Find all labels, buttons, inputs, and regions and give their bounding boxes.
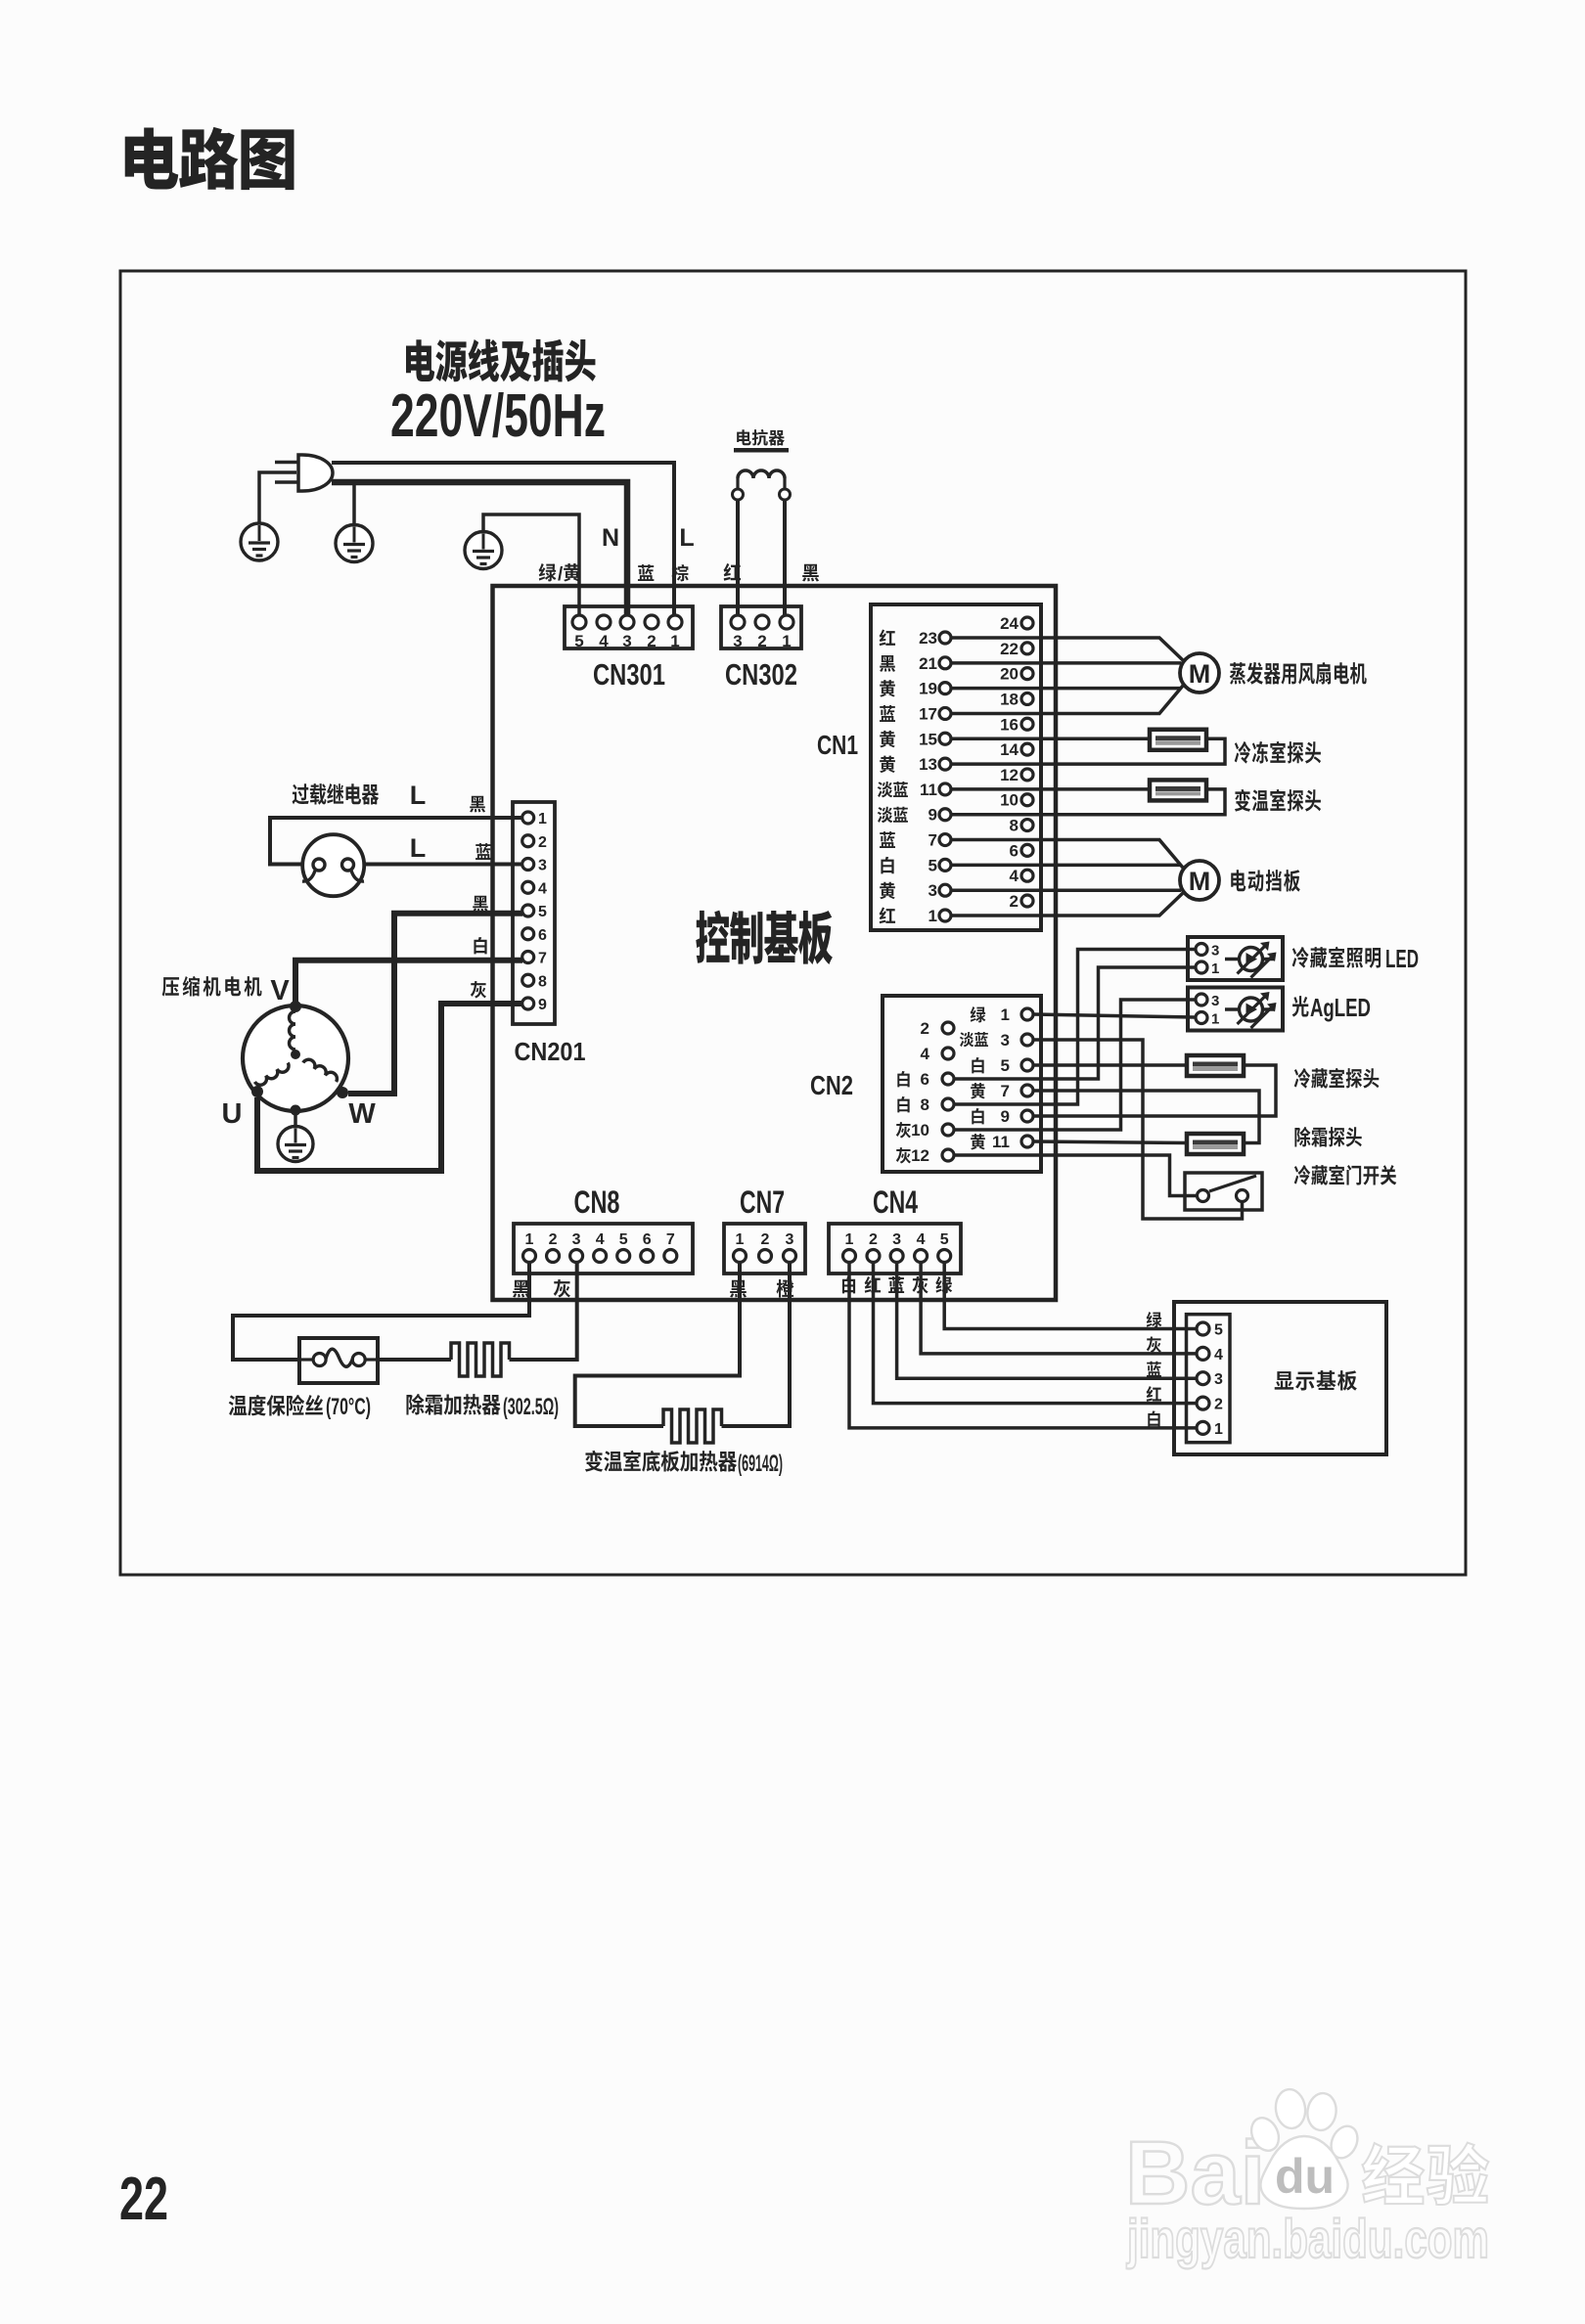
svg-text:22: 22 [1000, 640, 1019, 658]
svg-text:6: 6 [538, 927, 547, 944]
wire door switch (left) to CN2 pin12 [954, 1155, 1198, 1196]
CN1 pin 21 (黑) [880, 655, 895, 672]
watermark Baidu 经验 logo [1125, 2087, 1363, 2223]
svg-text:21: 21 [919, 654, 937, 673]
wire defrost heater to CN8 pin3 [510, 1262, 577, 1360]
connector CN302 [721, 606, 801, 648]
svg-text:3: 3 [1214, 1371, 1223, 1388]
wire CN1 pin5 to damper motor [951, 864, 1181, 868]
relay OLR 过载继电器 [302, 834, 364, 896]
connector CN1 [871, 604, 1041, 930]
svg-text:1: 1 [1211, 1011, 1219, 1028]
CN2 pin 11 (黄) [971, 1134, 985, 1149]
reactor L301 [738, 470, 785, 478]
wire CN1 pin11 to vari-temp sensor [951, 787, 1150, 791]
svg-text:8: 8 [1010, 817, 1019, 835]
svg-text:L: L [410, 781, 427, 810]
CN1 pin 5 (白) [881, 857, 893, 873]
wire CN201 pin1 to relay [270, 818, 522, 865]
svg-text:4: 4 [599, 632, 609, 650]
LED D1 冷藏室照明LED [1188, 937, 1283, 980]
wire reactor to CN302 pin3 红 [736, 500, 740, 616]
svg-text:9: 9 [538, 997, 547, 1013]
wire CN201 pin7 to compressor V [295, 961, 522, 1004]
svg-text:2: 2 [921, 1019, 929, 1038]
svg-text:LED: LED [1385, 944, 1419, 973]
svg-text:9: 9 [1001, 1107, 1010, 1126]
svg-text:7: 7 [928, 831, 937, 850]
svg-text:M: M [1189, 659, 1211, 689]
CN2 pin 1 (绿) [971, 1006, 986, 1022]
svg-text:V: V [270, 975, 290, 1006]
label 变温室探头 [1235, 789, 1321, 812]
net label 灰 (pin9) [471, 981, 486, 999]
connector CN201 [513, 802, 555, 1024]
svg-text:3: 3 [1211, 993, 1219, 1009]
svg-text:5: 5 [619, 1231, 628, 1248]
wire CN1 pin1 to damper motor [951, 893, 1183, 916]
label 除霜探头 [1294, 1127, 1361, 1147]
label 电源线及插头 220V/50Hz [406, 339, 596, 382]
wire CN1 pin21 to fan motor [951, 661, 1181, 665]
wire CN201 pin9 to compressor U [257, 1004, 522, 1171]
CN1 pin 3 (黄) [880, 882, 895, 899]
svg-text:CN301: CN301 [593, 657, 665, 692]
wire CN2 pin1 to LED D2 pin1 [1033, 1014, 1195, 1017]
wire CN201 pin5 to compressor W [348, 914, 522, 1094]
CN2 pin 5 (白) [972, 1057, 983, 1073]
svg-text:1: 1 [845, 1231, 854, 1248]
svg-text:jingyan.baidu.com: jingyan.baidu.com [1126, 2208, 1489, 2269]
CN2 pin 12 (灰) [896, 1147, 911, 1163]
svg-text:CN7: CN7 [740, 1184, 785, 1220]
svg-text:(70°C): (70°C) [326, 1394, 371, 1420]
svg-text:1: 1 [782, 632, 791, 650]
svg-text:24: 24 [1000, 614, 1019, 633]
svg-text:CN302: CN302 [725, 657, 797, 692]
wire sensor RT3 return to CN2 pin9 [1033, 1065, 1276, 1116]
wire fuse to defrost heater [378, 1358, 451, 1362]
wire LED D2 pin3 to CN2 pin10 [954, 1000, 1195, 1130]
svg-text:17: 17 [919, 704, 937, 723]
svg-text:/: / [558, 564, 564, 585]
net label 白 (pin7) [474, 937, 486, 954]
wire CN1 pin15 to freezer sensor [951, 737, 1150, 741]
sensor RT4 除霜探头 [1187, 1134, 1244, 1154]
svg-text:4: 4 [596, 1231, 605, 1248]
wire CN4 pin4 to display pin4 (灰) [921, 1262, 1197, 1354]
svg-text:2: 2 [1010, 892, 1019, 911]
svg-text:2: 2 [538, 834, 547, 851]
net label 黑 (pin5) [473, 896, 488, 913]
sensor RT2 变温室探头 [1150, 780, 1206, 800]
wire CN4 pin3 to display pin3 (蓝) [897, 1262, 1197, 1378]
wire CN1 pin17 to fan motor [951, 686, 1183, 713]
CN1 pin 11 (淡蓝) [878, 782, 908, 797]
svg-text:10: 10 [911, 1121, 929, 1140]
svg-text:1: 1 [736, 1231, 745, 1248]
net label 绿/黄 [539, 563, 557, 581]
svg-text:4: 4 [1010, 867, 1019, 885]
plug P1 [298, 455, 333, 491]
svg-text:4: 4 [538, 880, 547, 897]
svg-text:5: 5 [1001, 1056, 1010, 1075]
CN2 pin 7 (黄) [971, 1083, 985, 1098]
svg-text:5: 5 [1214, 1322, 1223, 1339]
svg-text:CN2: CN2 [810, 1070, 853, 1100]
net label 红 (display) [1147, 1386, 1161, 1402]
wire CN7 pin1 to floor heater [575, 1262, 740, 1426]
wire freezer sensor return to CN1 pin13 [951, 738, 1225, 764]
net label 灰 (display) [1147, 1336, 1161, 1352]
svg-text:1: 1 [1214, 1421, 1223, 1438]
svg-text:2: 2 [1214, 1397, 1223, 1413]
wire CN1 pin23 to fan motor [951, 638, 1183, 660]
svg-text:CN201: CN201 [515, 1037, 586, 1066]
svg-text:11: 11 [992, 1133, 1010, 1151]
CN2 pin 9 (白) [972, 1108, 983, 1124]
CN1 pin 9 (淡蓝) [878, 807, 908, 823]
control board 控制基板 [493, 586, 1057, 1300]
net label 黑 [802, 564, 819, 582]
svg-text:11: 11 [920, 781, 937, 799]
svg-text:3: 3 [786, 1231, 794, 1248]
svg-text:1: 1 [538, 811, 547, 827]
wire ground G3 to CN301 pin5 (green/yellow) [483, 514, 579, 616]
net label 蓝 [475, 843, 491, 860]
net label 蓝 (display) [1147, 1362, 1161, 1377]
label 过载继电器 [293, 783, 380, 805]
svg-text:N: N [602, 524, 619, 552]
svg-text:U: U [222, 1098, 243, 1130]
wire compressor to ground G4 [294, 1110, 297, 1127]
svg-text:2: 2 [647, 632, 656, 650]
connector CN2 [883, 996, 1041, 1172]
svg-text:14: 14 [1000, 740, 1019, 759]
svg-text:CN1: CN1 [817, 730, 858, 760]
svg-text:4: 4 [921, 1045, 930, 1063]
svg-text:4: 4 [1214, 1347, 1223, 1363]
svg-text:15: 15 [919, 730, 937, 748]
net label 红 [724, 563, 741, 581]
CN1 pin 7 (蓝) [880, 831, 895, 848]
CN2 pin 10 (灰) [896, 1122, 911, 1138]
wire CN4 pin1 to display pin1 (白) [849, 1262, 1197, 1428]
heater R2 变温室底板加热器 6914Ω [663, 1409, 722, 1443]
svg-text:CN4: CN4 [873, 1184, 918, 1220]
svg-text:du: du [1275, 2149, 1335, 2204]
svg-text:8: 8 [538, 973, 547, 990]
svg-text:22: 22 [119, 2166, 168, 2233]
wire L brown: plug to CN301 pin1 [332, 463, 674, 616]
display board 显示基板 [1174, 1302, 1386, 1454]
wire CN2 pin7 to sensor RT4 return [1033, 1091, 1259, 1143]
wire reactor to CN302 pin1 黑 [783, 500, 787, 616]
svg-text:5: 5 [538, 904, 547, 920]
wire vari-temp sensor return to CN1 pin9 [951, 789, 1225, 815]
svg-text:4: 4 [917, 1231, 926, 1248]
CN2 pin 8 (白) [897, 1096, 909, 1112]
compressor motor M3 压缩机电机 [243, 1006, 348, 1111]
svg-text:L: L [679, 524, 694, 552]
svg-text:2: 2 [761, 1231, 770, 1248]
svg-text:3: 3 [1001, 1031, 1010, 1050]
svg-text:3: 3 [622, 632, 631, 650]
net labels 白红蓝灰绿 (CN4) [842, 1276, 855, 1293]
ground G3 [465, 532, 502, 569]
svg-text:1: 1 [525, 1231, 534, 1248]
wire CN2 pin11 to sensor RT4 [1033, 1141, 1187, 1143]
label 除霜加热器(302.5Ω) [406, 1394, 500, 1415]
motor M1 evaporator fan [1180, 653, 1219, 693]
wire CN1 pin7 to damper motor [951, 840, 1183, 868]
svg-text:3: 3 [538, 858, 547, 874]
net label 黑 [470, 796, 485, 813]
CN1 pin 13 (黄) [880, 756, 895, 773]
svg-text:7: 7 [538, 951, 547, 967]
svg-text:L: L [410, 833, 427, 863]
net label 白 (display) [1148, 1410, 1159, 1426]
ground G4 [278, 1127, 313, 1162]
svg-text:12: 12 [1000, 766, 1019, 784]
heater R1 除霜加热器 302.5Ω [451, 1343, 510, 1376]
svg-text:(302.5Ω): (302.5Ω) [503, 1394, 559, 1420]
svg-text:7: 7 [666, 1231, 675, 1248]
label 冷藏室探头 [1294, 1068, 1380, 1089]
CN1 pin 15 (黄) [880, 731, 895, 747]
wire N to ground G2 [352, 482, 356, 524]
svg-text:3: 3 [733, 632, 742, 650]
svg-text:6: 6 [921, 1070, 929, 1089]
svg-text:6: 6 [1010, 841, 1019, 860]
fuse F1 温度保险丝 [299, 1338, 378, 1383]
svg-text:1: 1 [928, 907, 937, 925]
net label 黑 (CN8 pin1) [513, 1280, 529, 1298]
wire N blue: plug to CN301 pin3 [332, 482, 627, 616]
svg-text:3: 3 [892, 1231, 901, 1248]
ground G2 [336, 525, 373, 562]
net label 绿 (display) [1147, 1312, 1162, 1327]
label 温度保险丝(70°C) [229, 1395, 323, 1416]
motor M2 damper 电动挡板 [1180, 861, 1219, 900]
svg-text:M: M [1189, 867, 1211, 896]
svg-text:220V/50Hz: 220V/50Hz [390, 382, 606, 450]
svg-text:5: 5 [928, 856, 937, 874]
svg-text:10: 10 [1000, 791, 1019, 810]
svg-text:3: 3 [1211, 943, 1219, 960]
net label 橙 (CN7 pin3) [777, 1279, 794, 1297]
sensor RT1 冷冻室探头 [1150, 730, 1206, 750]
net label 棕 [671, 564, 688, 581]
svg-text:13: 13 [919, 755, 937, 774]
connector CN301 [565, 606, 693, 648]
CN1 pin 19 (黄) [880, 680, 895, 696]
label 电动挡板 [1231, 870, 1300, 892]
svg-text:CN8: CN8 [574, 1184, 620, 1220]
svg-text:19: 19 [919, 680, 937, 698]
svg-text:16: 16 [1000, 715, 1019, 734]
svg-text:(6914Ω): (6914Ω) [738, 1451, 783, 1477]
svg-text:3: 3 [572, 1231, 581, 1248]
svg-text:1: 1 [670, 632, 679, 650]
wire CN4 pin2 to display pin2 (红) [874, 1262, 1198, 1404]
svg-text:5: 5 [940, 1231, 949, 1248]
svg-text:2: 2 [869, 1231, 878, 1248]
CN1 pin 1 (红) [880, 907, 895, 923]
wire CN8 pin1 to thermal fuse [233, 1262, 529, 1360]
CN1 pin 23 (红) [880, 629, 895, 646]
label 冷藏室照明LED [1292, 947, 1381, 968]
svg-text:1: 1 [1211, 961, 1219, 977]
label 蒸发器用风扇电机 [1230, 662, 1367, 685]
wire CN2 pin3 to door switch (right) [1033, 1040, 1243, 1219]
LED D2 光Ag LED [1188, 988, 1283, 1031]
svg-text:8: 8 [921, 1095, 929, 1114]
svg-text:6: 6 [643, 1231, 652, 1248]
CN1 pin 17 (蓝) [880, 705, 895, 722]
label 光AgLED [1292, 996, 1309, 1016]
page title 电路图 [125, 127, 294, 190]
label 冷藏室门开关 [1294, 1165, 1397, 1185]
label 电抗器 [737, 429, 785, 446]
label 冷冻室探头 [1235, 741, 1321, 764]
svg-text:23: 23 [919, 629, 937, 648]
svg-text:5: 5 [574, 632, 583, 650]
net label 灰 (CN8 pin3) [554, 1279, 570, 1298]
sensor RT3 冷藏室探头 [1187, 1055, 1244, 1076]
svg-text:2: 2 [757, 632, 766, 650]
label 压缩机电机 [162, 976, 262, 997]
svg-text:W: W [348, 1098, 376, 1130]
wire CN4 pin5 to display pin5 (绿) [944, 1262, 1197, 1329]
CN2 pin 6 (白) [897, 1071, 909, 1087]
svg-text:2: 2 [549, 1231, 558, 1248]
svg-text:3: 3 [928, 881, 937, 900]
wire LED D1 pin1 to CN2 pin6 [954, 967, 1195, 1079]
wire LED D1 pin3 to CN2 pin8 [954, 950, 1195, 1105]
svg-text:7: 7 [1001, 1082, 1010, 1100]
net label 黑 (CN7 pin1) [730, 1280, 747, 1298]
wire CN1 pin19 to fan motor [951, 687, 1181, 691]
svg-text:18: 18 [1000, 690, 1019, 708]
svg-text:AgLED: AgLED [1310, 993, 1371, 1022]
label 显示基板 [1275, 1370, 1357, 1391]
svg-text:9: 9 [928, 806, 937, 825]
switch S1 冷藏室门开关 [1185, 1173, 1262, 1210]
label 变温室底板加热器(6914Ω) [585, 1451, 737, 1472]
wire floor heater to CN7 pin3 [722, 1262, 791, 1426]
net label 蓝 [638, 564, 654, 581]
wire CN1 pin3 to damper motor [951, 888, 1181, 892]
wire CN2 pin5 to sensor RT3 [1033, 1063, 1187, 1067]
CN2 pin 3 (淡蓝) [960, 1032, 988, 1047]
svg-text:1: 1 [1001, 1006, 1010, 1024]
ground G1 [241, 523, 278, 560]
svg-text:20: 20 [1000, 665, 1019, 684]
svg-text:12: 12 [911, 1146, 929, 1165]
wire plug to ground G1 [259, 472, 296, 523]
